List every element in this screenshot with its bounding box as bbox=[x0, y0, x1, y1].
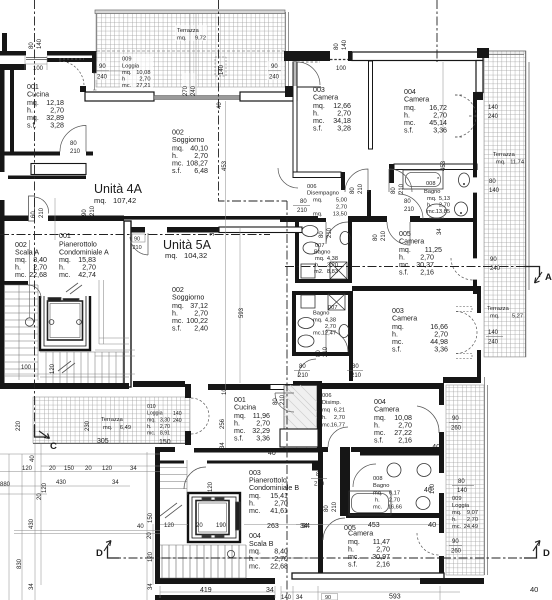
door camera004 right french dashed bbox=[455, 95, 476, 137]
spine wall lower outlined bbox=[219, 227, 302, 233]
svg-text:mq.: mq. bbox=[490, 314, 500, 320]
svg-text:mq.: mq. bbox=[177, 36, 187, 42]
room label 006 Disimpegno 4A bbox=[307, 184, 347, 218]
svg-text:006: 006 bbox=[307, 184, 317, 190]
svg-text:140: 140 bbox=[219, 64, 225, 75]
terrazza right rail bbox=[286, 12, 289, 87]
wall cucina5A right bbox=[291, 408, 296, 448]
svg-text:Disimp.: Disimp. bbox=[322, 400, 341, 406]
dim ext lines bottom-left horizontal bbox=[0, 454, 160, 534]
svg-text:263: 263 bbox=[267, 522, 279, 530]
stairs B upper treads bbox=[160, 460, 246, 578]
svg-text:20: 20 bbox=[196, 523, 203, 529]
room label 004 Scala B bbox=[249, 532, 288, 571]
svg-text:40: 40 bbox=[424, 487, 432, 494]
svg-text:009: 009 bbox=[122, 57, 132, 63]
wall right 4A outer bbox=[473, 100, 477, 294]
terrazza rail left post bbox=[96, 13, 98, 52]
svg-text:120: 120 bbox=[208, 481, 214, 492]
dim 80/210 rot doorB bbox=[391, 183, 405, 194]
wall divider 4A/5A east bbox=[352, 286, 481, 291]
svg-text:mq: mq bbox=[322, 408, 330, 414]
wall scalaA division bbox=[4, 281, 28, 285]
stairs A treads left bbox=[4, 285, 38, 376]
wall bathA bottom bbox=[295, 279, 352, 283]
wall corridor5A south bbox=[293, 381, 320, 386]
svg-text:Cucina: Cucina bbox=[234, 404, 256, 412]
svg-text:D: D bbox=[96, 548, 103, 559]
dim 34 rot right bbox=[437, 228, 443, 235]
dim 120 rot stairs bbox=[50, 363, 56, 374]
svg-text:Disempagno: Disempagno bbox=[307, 191, 339, 197]
svg-text:240: 240 bbox=[488, 114, 499, 120]
svg-text:9,07: 9,07 bbox=[467, 510, 478, 516]
dim verticals top-left bbox=[25, 56, 55, 240]
svg-text:A: A bbox=[545, 272, 552, 283]
elevator B car bbox=[196, 501, 229, 535]
svg-text:20: 20 bbox=[85, 466, 92, 472]
stairs B treads bbox=[162, 545, 246, 578]
svg-text:90: 90 bbox=[82, 209, 88, 216]
washer bathB bbox=[301, 295, 315, 308]
svg-text:Loggia: Loggia bbox=[452, 503, 470, 509]
section line A left part bbox=[0, 234, 270, 236]
svg-text:20: 20 bbox=[147, 532, 153, 539]
dim ext lines bottom-left vertical bbox=[9, 444, 153, 600]
svg-text:27,21: 27,21 bbox=[136, 83, 150, 89]
svg-text:80: 80 bbox=[352, 364, 359, 370]
room label Terrazza top-left bbox=[177, 28, 206, 42]
svg-text:80: 80 bbox=[489, 179, 496, 185]
section line D horizontal bbox=[112, 557, 533, 559]
svg-text:100: 100 bbox=[336, 66, 347, 72]
svg-text:2,70: 2,70 bbox=[325, 324, 336, 330]
door camera005-5A window arc dashed bbox=[417, 533, 439, 555]
svg-text:140: 140 bbox=[173, 411, 182, 417]
svg-text:mc.: mc. bbox=[59, 271, 70, 279]
svg-text:9,72: 9,72 bbox=[195, 36, 206, 42]
svg-text:20: 20 bbox=[37, 493, 43, 500]
svg-text:210: 210 bbox=[133, 245, 142, 251]
svg-text:256: 256 bbox=[220, 418, 226, 429]
dim 256 rot bbox=[220, 418, 226, 429]
svg-text:001: 001 bbox=[59, 232, 71, 240]
svg-text:6,17: 6,17 bbox=[389, 491, 400, 497]
unit label Unita 5A bbox=[163, 238, 212, 260]
svg-text:3,20: 3,20 bbox=[327, 263, 338, 269]
room label 003 Camera 5A bbox=[392, 307, 448, 354]
svg-text:40: 40 bbox=[30, 455, 36, 462]
svg-text:Camera: Camera bbox=[399, 238, 424, 246]
svg-text:6,21: 6,21 bbox=[334, 408, 345, 414]
wall bathB bottom bbox=[294, 352, 352, 356]
dim lines elevator B bbox=[120, 419, 318, 525]
svg-text:453: 453 bbox=[222, 160, 228, 171]
svg-text:80: 80 bbox=[273, 398, 279, 405]
elevator B machinery bbox=[236, 502, 241, 530]
wall cucina5A top outlined bbox=[270, 385, 299, 390]
wall camera003 left outlined bbox=[293, 62, 297, 172]
svg-text:mc.: mc. bbox=[249, 507, 260, 515]
dim extension lines terrace bbox=[96, 14, 196, 96]
svg-text:230: 230 bbox=[85, 420, 91, 431]
wall right 5A outer lower bbox=[439, 493, 444, 533]
dim 80/140 rot camera003 bbox=[334, 39, 348, 50]
svg-text:D: D bbox=[543, 548, 550, 559]
svg-text:Unità 4A: Unità 4A bbox=[94, 182, 143, 196]
wall cucina left bbox=[10, 64, 14, 152]
svg-text:140: 140 bbox=[488, 105, 499, 111]
door cucina4A bottom arc bbox=[60, 126, 86, 152]
dim 140 boxed rot bbox=[219, 64, 225, 75]
svg-text:s.f.: s.f. bbox=[404, 127, 413, 135]
svg-text:mq.: mq. bbox=[315, 256, 325, 262]
svg-text:240: 240 bbox=[191, 85, 197, 96]
dim 100 rot loggia right bbox=[430, 483, 436, 494]
svg-text:3,30: 3,30 bbox=[160, 418, 170, 424]
wall camera003-5A right bbox=[477, 291, 481, 377]
window camera003 top dashed bbox=[330, 59, 348, 61]
wall cucina top left inner bbox=[0, 64, 26, 70]
room label 010 Loggia bbox=[147, 404, 182, 437]
bidet bathA bbox=[340, 232, 350, 245]
wall cucina top right inner bbox=[47, 58, 93, 62]
svg-text:mq. 107,42: mq. 107,42 bbox=[94, 196, 136, 205]
svg-text:s.f.: s.f. bbox=[27, 122, 36, 130]
dim 80/210 rot door 005-5A bbox=[324, 501, 338, 512]
svg-text:140: 140 bbox=[488, 330, 499, 336]
svg-text:s.f.: s.f. bbox=[172, 325, 181, 333]
svg-text:34: 34 bbox=[29, 583, 35, 590]
svg-text:40: 40 bbox=[217, 102, 223, 109]
svg-text:140: 140 bbox=[342, 39, 348, 50]
wall pianerottoloB niche outlined bbox=[280, 429, 318, 447]
svg-text:s.f.: s.f. bbox=[348, 561, 357, 569]
door camera004 corridor arc bbox=[389, 169, 412, 192]
wall right 5A outer bottom bbox=[439, 556, 444, 577]
room label 009 Loggia right bbox=[452, 496, 478, 530]
svg-text:34: 34 bbox=[220, 442, 226, 449]
toilet bathA bbox=[303, 242, 319, 254]
svg-text:190: 190 bbox=[216, 523, 227, 529]
svg-text:210: 210 bbox=[90, 205, 96, 216]
svg-text:8,91: 8,91 bbox=[160, 431, 170, 437]
svg-text:80: 80 bbox=[404, 199, 411, 205]
wall bottom-left strip2 bbox=[155, 595, 275, 600]
stairs A landing boundary bbox=[99, 280, 129, 344]
svg-text:Soggiorno: Soggiorno bbox=[172, 294, 204, 302]
wall camera004 right lower stub bbox=[473, 92, 483, 100]
svg-text:mq.: mq. bbox=[313, 212, 323, 218]
svg-text:210: 210 bbox=[39, 207, 45, 218]
svg-text:s.f.: s.f. bbox=[313, 125, 322, 133]
bidet 008-5A bbox=[416, 497, 430, 510]
wall soggiorno5A bottom bbox=[133, 381, 185, 387]
toilet 008-5A bbox=[417, 464, 431, 477]
svg-text:210: 210 bbox=[298, 373, 309, 379]
room label 004 Camera 5A bbox=[374, 398, 412, 445]
svg-text:90: 90 bbox=[452, 416, 459, 422]
stairs A flight divider bbox=[19, 285, 38, 380]
door pianerottoloB arc bbox=[184, 467, 206, 489]
wall camera003-5A bottom step bbox=[443, 377, 481, 383]
shaft hatched block bbox=[284, 386, 317, 452]
svg-text:5,00: 5,00 bbox=[336, 198, 347, 204]
door cucina4A top arc bbox=[59, 61, 84, 86]
svg-text:mq.: mq. bbox=[496, 160, 506, 166]
sink 008-5A bbox=[387, 463, 401, 477]
stairs A rail circle bbox=[25, 318, 33, 326]
svg-text:Pianerottolo: Pianerottolo bbox=[59, 241, 97, 249]
svg-text:430: 430 bbox=[56, 480, 67, 486]
svg-text:2,16: 2,16 bbox=[398, 437, 412, 445]
wall left outer strip upper bbox=[0, 64, 5, 172]
room label 007 Bagno A bbox=[314, 243, 338, 275]
elevator A shaft bbox=[40, 296, 90, 350]
wall right 5A outer bbox=[439, 383, 444, 473]
svg-text:210: 210 bbox=[332, 501, 338, 512]
stairs A lower treads bbox=[40, 352, 129, 383]
room label Terrazza right 1 bbox=[493, 152, 524, 166]
room label 009 Loggia bbox=[122, 57, 151, 90]
svg-text:10: 10 bbox=[222, 388, 228, 395]
svg-text:42,74: 42,74 bbox=[78, 271, 96, 279]
wall soggiorno top west bar bbox=[85, 92, 154, 101]
wall bathB left bbox=[292, 291, 296, 356]
wall step soggiorno nw bbox=[80, 86, 86, 92]
svg-text:Camera: Camera bbox=[404, 96, 429, 104]
svg-text:Camera: Camera bbox=[374, 406, 399, 414]
sink bathB bbox=[298, 318, 314, 329]
svg-text:210: 210 bbox=[358, 183, 364, 194]
svg-text:2,16: 2,16 bbox=[420, 269, 434, 277]
svg-text:mc.: mc. bbox=[373, 505, 383, 511]
svg-text:2,70: 2,70 bbox=[160, 424, 170, 430]
shower bathA bbox=[330, 262, 347, 279]
door loggia cucina5A french bbox=[191, 398, 209, 434]
wall cucina top left seg bbox=[0, 51, 26, 56]
dim 270/240 rot bbox=[183, 85, 197, 96]
dim 453 rot right bbox=[441, 160, 447, 171]
wall bottom-left strip bbox=[155, 578, 275, 584]
svg-text:80: 80 bbox=[316, 350, 322, 357]
svg-text:240: 240 bbox=[490, 266, 501, 272]
svg-text:90: 90 bbox=[271, 64, 278, 70]
svg-text:34: 34 bbox=[266, 587, 274, 594]
wall scalaB top bbox=[155, 447, 175, 452]
door cucina5A entry arc bbox=[275, 393, 294, 412]
room label 008 Bagno 4A bbox=[424, 177, 450, 215]
dim line y466 ticks bbox=[41, 465, 160, 467]
dim 80/210 rot 005door bbox=[373, 230, 387, 241]
svg-text:h.: h. bbox=[427, 203, 432, 209]
dim 40 rot bbox=[217, 102, 223, 109]
door camera003 corridor arc bbox=[345, 169, 368, 192]
dim 230 rot bbox=[85, 420, 91, 431]
svg-text:2,16: 2,16 bbox=[376, 561, 390, 569]
svg-text:210: 210 bbox=[381, 230, 387, 241]
svg-text:006: 006 bbox=[322, 393, 332, 399]
svg-text:90: 90 bbox=[325, 595, 331, 600]
wall cucina5A top bbox=[208, 384, 270, 390]
wall bath column right bbox=[348, 218, 352, 283]
svg-text:3,28: 3,28 bbox=[50, 122, 64, 130]
svg-text:430: 430 bbox=[29, 518, 35, 529]
svg-text:453: 453 bbox=[441, 160, 447, 171]
svg-text:mq.: mq. bbox=[122, 70, 132, 76]
svg-text:40: 40 bbox=[432, 442, 440, 451]
svg-text:120: 120 bbox=[148, 551, 154, 562]
dim 40 rot terrace bbox=[379, 495, 381, 497]
svg-text:010: 010 bbox=[147, 404, 156, 410]
svg-text:150: 150 bbox=[159, 439, 171, 446]
window cucina top bbox=[26, 58, 47, 60]
svg-text:240: 240 bbox=[173, 418, 182, 424]
wall camera004-5A left bbox=[317, 381, 322, 452]
room label 005 Camera 4A bbox=[399, 230, 442, 277]
svg-text:2,70: 2,70 bbox=[467, 517, 478, 523]
svg-text:34: 34 bbox=[130, 466, 137, 472]
dim line 453 right bbox=[226, 62, 444, 525]
svg-text:453: 453 bbox=[368, 522, 380, 529]
svg-text:mq.: mq. bbox=[147, 418, 156, 424]
dim 60/210 rot scalaA bbox=[31, 207, 45, 218]
svg-text:40: 40 bbox=[428, 520, 436, 529]
svg-text:b.: b. bbox=[315, 263, 320, 269]
svg-text:40: 40 bbox=[137, 524, 144, 530]
svg-text:5,13: 5,13 bbox=[439, 196, 450, 202]
wall bathB right bbox=[348, 291, 352, 356]
dim 10 rot bbox=[222, 388, 228, 395]
svg-text:210: 210 bbox=[280, 394, 286, 405]
svg-text:60: 60 bbox=[31, 211, 37, 218]
svg-text:Bagno: Bagno bbox=[313, 311, 329, 317]
svg-text:22,68: 22,68 bbox=[270, 563, 288, 571]
washer bathA bbox=[301, 264, 315, 278]
wall cucina bottom bbox=[0, 152, 93, 156]
svg-text:150: 150 bbox=[64, 466, 75, 472]
svg-text:210: 210 bbox=[297, 208, 308, 214]
wall pianerottoloB top bbox=[194, 448, 318, 453]
svg-text:12,47: 12,47 bbox=[322, 331, 336, 337]
svg-text:140: 140 bbox=[37, 38, 43, 49]
section line A right part bbox=[285, 266, 533, 268]
svg-text:100: 100 bbox=[21, 365, 32, 371]
door camera004-5A window arc bbox=[417, 406, 439, 433]
wall below cucina corridor bbox=[8, 176, 86, 180]
spine wall lower gap jamb bbox=[141, 227, 145, 233]
wall bagno008-5A bottom bbox=[346, 513, 440, 518]
dim 80/210 rot bathB door bbox=[316, 346, 329, 357]
wall loggia jamb bottom bbox=[185, 431, 191, 445]
door camera004-5A entry arc bbox=[328, 427, 348, 447]
section D arrow left bbox=[108, 546, 120, 558]
shower bathB bbox=[328, 294, 345, 310]
svg-text:m2.: m2. bbox=[314, 269, 324, 275]
svg-text:s.f.: s.f. bbox=[172, 167, 181, 175]
wall cucina right / terrace bbox=[92, 51, 97, 73]
section line S4 vertical bbox=[286, 201, 288, 600]
svg-text:210: 210 bbox=[323, 346, 329, 357]
svg-text:140: 140 bbox=[457, 488, 468, 494]
svg-text:Cucina: Cucina bbox=[27, 91, 49, 99]
svg-text:Camera: Camera bbox=[392, 315, 417, 323]
door bagno008-5A arc bbox=[353, 464, 376, 487]
terrazza bottom-left hatch bbox=[33, 397, 190, 443]
room label 008 Bagno 5A bbox=[373, 476, 402, 511]
elevator A car bbox=[48, 301, 83, 340]
svg-text:80: 80 bbox=[319, 231, 325, 238]
window soggiorno glazing bbox=[154, 96, 240, 100]
door gap white 5A entry bbox=[145, 226, 167, 234]
door scalaA arc bbox=[28, 285, 41, 298]
dim 220 rot bbox=[16, 420, 22, 431]
svg-text:80: 80 bbox=[458, 479, 465, 485]
svg-text:Soggiorno: Soggiorno bbox=[172, 136, 204, 144]
svg-text:2,70: 2,70 bbox=[336, 205, 347, 211]
svg-text:80: 80 bbox=[299, 364, 306, 370]
svg-text:2,70: 2,70 bbox=[389, 498, 400, 504]
svg-text:Terrazza: Terrazza bbox=[487, 306, 510, 312]
svg-text:120: 120 bbox=[164, 523, 175, 529]
dim 80/210 rot bathA door bbox=[102, 560, 104, 562]
stairs A break marks bbox=[58, 283, 82, 373]
svg-text:3,36: 3,36 bbox=[434, 346, 448, 354]
svg-text:mq.: mq. bbox=[452, 510, 462, 516]
bathtub 008-4A bbox=[403, 170, 443, 189]
svg-text:mc.: mc. bbox=[147, 431, 155, 437]
svg-text:120: 120 bbox=[102, 466, 113, 472]
wall bagni top right bbox=[420, 218, 477, 222]
loggia boundary dashed bbox=[97, 50, 285, 52]
wall corridor5A west upper bbox=[292, 334, 296, 356]
room label Terrazza bottom-left bbox=[101, 417, 131, 431]
wall pianerottoloA right bbox=[124, 221, 131, 387]
wall loggia jamb top bbox=[185, 384, 191, 398]
svg-text:4,38: 4,38 bbox=[325, 318, 336, 324]
wall y447 camera004 bottom bbox=[322, 447, 439, 456]
door bathA arc bbox=[326, 222, 348, 244]
svg-text:80: 80 bbox=[334, 43, 340, 50]
svg-text:830: 830 bbox=[17, 558, 23, 569]
svg-text:mc.: mc. bbox=[452, 524, 462, 530]
stairs B break marks bbox=[160, 503, 182, 518]
section C arrow bbox=[35, 425, 47, 437]
svg-text:4,38: 4,38 bbox=[327, 256, 338, 262]
wall below cucina outlined bar bbox=[31, 164, 86, 175]
svg-text:Loggia: Loggia bbox=[147, 411, 163, 417]
spine thin line bbox=[124, 216, 304, 220]
wall stairs bottom bbox=[0, 383, 129, 389]
unit label Unita 4A bbox=[94, 182, 143, 205]
svg-text:305: 305 bbox=[97, 438, 109, 445]
svg-text:120: 120 bbox=[50, 363, 56, 374]
svg-text:Bagno: Bagno bbox=[314, 250, 330, 256]
wall camera004-5A top bbox=[322, 383, 443, 389]
svg-text:593: 593 bbox=[389, 594, 401, 600]
svg-text:210: 210 bbox=[314, 482, 325, 488]
dim horizontal in stairs bbox=[4, 350, 135, 374]
wall bathB top bbox=[295, 291, 352, 295]
svg-text:240: 240 bbox=[97, 75, 108, 81]
door bathB arc bbox=[326, 330, 348, 352]
section D arrow right bbox=[524, 546, 537, 558]
terrazza bottom-left rail bbox=[33, 443, 190, 445]
svg-text:mc.: mc. bbox=[15, 271, 26, 279]
svg-text:41,61: 41,61 bbox=[270, 507, 288, 515]
wall bagno008-5A left bbox=[340, 447, 350, 516]
svg-text:40: 40 bbox=[268, 450, 276, 457]
